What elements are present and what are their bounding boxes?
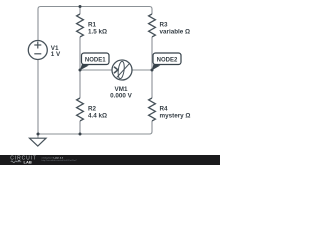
- svg-text:R2: R2: [88, 106, 97, 113]
- svg-text:1.5 kΩ: 1.5 kΩ: [88, 29, 107, 36]
- svg-text:1 V: 1 V: [51, 51, 61, 58]
- svg-text:variable Ω: variable Ω: [160, 29, 191, 36]
- svg-text:4.4 kΩ: 4.4 kΩ: [88, 113, 107, 120]
- svg-text:R1: R1: [88, 22, 97, 29]
- svg-text:0.000 V: 0.000 V: [110, 93, 133, 100]
- svg-text:LAB: LAB: [24, 159, 32, 164]
- svg-text:mystery Ω: mystery Ω: [160, 113, 191, 120]
- svg-text:NODE1: NODE1: [85, 58, 106, 64]
- svg-text:R3: R3: [160, 22, 169, 29]
- svg-text:NODE2: NODE2: [157, 58, 178, 64]
- svg-text:R4: R4: [160, 106, 169, 113]
